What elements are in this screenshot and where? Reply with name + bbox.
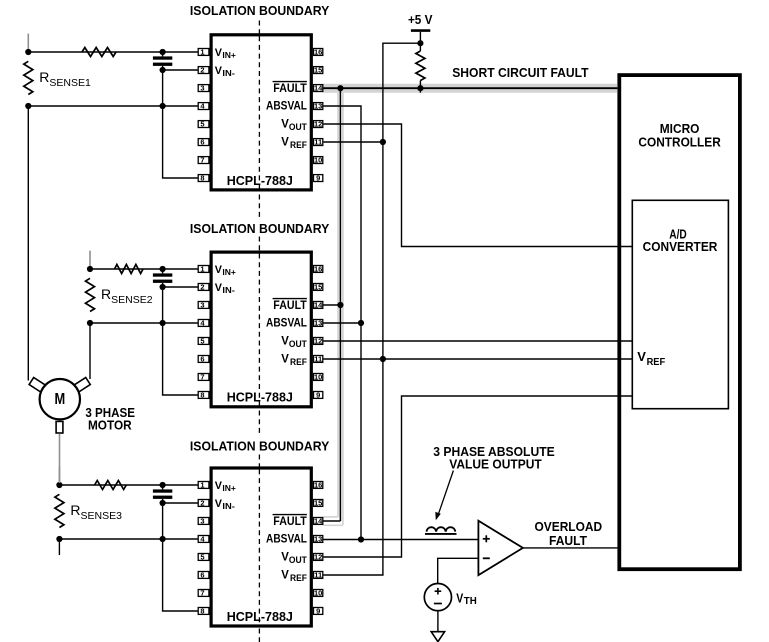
svg-text:13: 13	[314, 319, 322, 328]
wire FAULT bus horizontal to microcontroller	[323, 87, 618, 89]
wire top rail stage 3	[59, 484, 198, 486]
node pullup/fault bus	[417, 85, 423, 91]
pin 4 U1	[198, 103, 209, 110]
node rail-sense 1a	[25, 49, 31, 55]
pin 15 U2	[314, 284, 323, 291]
node VREF IC1	[380, 139, 386, 145]
pin 1 U3	[198, 482, 209, 489]
pin 15 U1	[314, 67, 323, 74]
svg-text:REF: REF	[290, 573, 307, 583]
wire FAULT bus vertical	[339, 88, 341, 521]
svg-text:11: 11	[314, 355, 322, 364]
wire cap to bottom rail 3	[162, 503, 164, 539]
svg-text:IN+: IN+	[222, 268, 236, 277]
pin 8 U2	[198, 392, 209, 399]
svg-text:MOTOR: MOTOR	[88, 419, 132, 433]
svg-text:15: 15	[314, 499, 322, 508]
svg-text:9: 9	[316, 391, 320, 400]
pin 4 U2	[198, 320, 209, 327]
svg-text:IN-: IN-	[222, 69, 235, 78]
wire phase1 to motor	[27, 105, 29, 380]
svg-text:V: V	[281, 333, 289, 347]
svg-text:HCPL-788J: HCPL-788J	[227, 390, 293, 405]
svg-text:HCPL-788J: HCPL-788J	[227, 609, 293, 624]
isolation dashes inside U1	[258, 36, 260, 188]
svg-text:CONTROLLER: CONTROLLER	[638, 134, 721, 149]
wire VREF IC1 pin11	[324, 141, 383, 143]
wire ABSVAL IC2 pin13	[324, 322, 362, 324]
svg-text:11: 11	[314, 571, 322, 580]
pin 2 U3	[198, 500, 209, 507]
microcontroller block	[619, 75, 740, 569]
node rail-sense 3a	[56, 482, 62, 488]
pin 3 U3	[198, 518, 209, 525]
pin 10 U2	[314, 374, 323, 381]
motor terminal upper-right	[74, 377, 90, 391]
pin 15 U3	[314, 500, 323, 507]
pin 11 U3	[314, 572, 323, 579]
svg-text:V: V	[281, 549, 289, 563]
pin 4 U3	[198, 536, 209, 543]
op-amp isolation amplifier U3 HCPL-788J body	[211, 468, 311, 626]
svg-text:HCPL-788J: HCPL-788J	[227, 173, 293, 188]
svg-text:12: 12	[314, 337, 322, 346]
wire top rail stage 1	[28, 51, 198, 53]
pin 14 U1	[314, 85, 323, 92]
svg-text:+5 V: +5 V	[408, 12, 433, 27]
svg-text:13: 13	[314, 535, 322, 544]
svg-text:16: 16	[314, 48, 322, 57]
node +5V branch	[417, 40, 423, 46]
svg-text:V: V	[281, 134, 289, 148]
wire VREF IC2 pin11 to A/D	[324, 358, 632, 360]
node rail-mid 3b	[160, 536, 166, 542]
svg-text:8: 8	[200, 174, 204, 183]
pin 13 U2	[314, 320, 323, 327]
voltage source VTH	[424, 584, 451, 611]
svg-text:V: V	[637, 349, 646, 364]
svg-text:10: 10	[314, 156, 322, 165]
svg-text:7: 7	[200, 373, 204, 382]
svg-text:6: 6	[200, 571, 204, 580]
svg-text:9: 9	[316, 607, 320, 616]
pin 12 U2	[314, 338, 323, 345]
pin 16 U3	[314, 482, 323, 489]
svg-text:8: 8	[200, 391, 204, 400]
pin 7 U2	[198, 374, 209, 381]
gray phase stub stage 2	[89, 251, 91, 267]
svg-text:3: 3	[200, 517, 204, 526]
svg-text:ABSVAL: ABSVAL	[266, 99, 307, 113]
pin 14 U2	[314, 302, 323, 309]
svg-text:REF: REF	[647, 357, 666, 368]
pin 5 U1	[198, 121, 209, 128]
ground	[431, 632, 444, 642]
svg-text:7: 7	[200, 589, 204, 598]
svg-text:1: 1	[200, 48, 204, 57]
svg-text:SHORT CIRCUIT FAULT: SHORT CIRCUIT FAULT	[452, 65, 588, 80]
wire bottom rail stage 2	[90, 322, 199, 324]
pin 13 U3	[314, 536, 323, 543]
pin 8 U1	[198, 175, 209, 182]
svg-text:1: 1	[200, 481, 204, 490]
node rail-cap 1a	[160, 49, 166, 55]
wire to pin8 stage 1	[163, 106, 199, 178]
pin 12 U1	[314, 121, 323, 128]
svg-text:V: V	[281, 567, 289, 581]
resistor RSENSE1	[24, 61, 33, 94]
pin 9 U1	[314, 175, 323, 182]
wire ABSVAL IC3 pin13 to comparator	[324, 539, 479, 541]
svg-text:14: 14	[314, 84, 323, 93]
svg-text:1: 1	[200, 265, 204, 274]
isolation dashes inside U2	[258, 254, 260, 406]
svg-text:OUT: OUT	[289, 555, 307, 565]
gray phase stub stage 1	[27, 34, 29, 50]
svg-text:9: 9	[316, 174, 320, 183]
isolation boundary dashed line 2	[258, 237, 260, 436]
wire comparator output OVERLOAD FAULT	[523, 547, 618, 549]
svg-text:14: 14	[314, 301, 323, 310]
pin 2 U2	[198, 284, 209, 291]
node FAULT IC2 junction	[337, 302, 343, 308]
pin 16 U1	[314, 49, 323, 56]
svg-text:3: 3	[200, 301, 204, 310]
pin 11 U2	[314, 356, 323, 363]
pin 1 U2	[198, 266, 209, 273]
wire VIN- pin2 stage 2	[163, 286, 199, 288]
wire cap to bottom rail 2	[162, 287, 164, 323]
wire comparator minus input	[438, 558, 479, 583]
svg-text:13: 13	[314, 102, 322, 111]
svg-text:6: 6	[200, 138, 204, 147]
arrow to absolute value node	[439, 471, 454, 514]
comparator U1	[478, 521, 523, 575]
node cap-pin2 1	[160, 67, 166, 73]
A/D converter block	[632, 200, 728, 408]
wire VOUT1 to A/D	[324, 124, 632, 247]
svg-text:ISOLATION BOUNDARY: ISOLATION BOUNDARY	[190, 3, 330, 18]
motor M1	[40, 379, 80, 419]
pin 11 U1	[314, 139, 323, 146]
node rail-sense 2a	[87, 266, 93, 272]
wire VOUT3 to A/D	[324, 396, 632, 557]
svg-text:IN+: IN+	[222, 51, 236, 60]
resistor input R3a	[95, 481, 127, 490]
isolation boundary dashed line 1	[258, 21, 260, 218]
pin 7 U3	[198, 590, 209, 597]
pin 14 U3	[314, 518, 323, 525]
svg-text:8: 8	[200, 607, 204, 616]
svg-text:2: 2	[200, 499, 204, 508]
wire pullup to fault bus	[419, 81, 421, 93]
pin 3 U2	[198, 302, 209, 309]
node rail-sense 2b	[87, 320, 93, 326]
svg-text:12: 12	[314, 120, 322, 129]
node rail-mid 2b	[160, 320, 166, 326]
svg-text:14: 14	[314, 517, 323, 526]
resistor R pull-up	[416, 51, 425, 81]
pin 8 U3	[198, 608, 209, 615]
capacitor C1	[153, 56, 172, 59]
wire cap to bottom rail 1	[162, 70, 164, 106]
resistor RSENSE3	[55, 494, 64, 527]
op-amp isolation amplifier U2 HCPL-788J body	[211, 252, 311, 407]
svg-text:ISOLATION BOUNDARY: ISOLATION BOUNDARY	[190, 221, 330, 236]
svg-text:IN-: IN-	[222, 286, 235, 295]
svg-text:REF: REF	[290, 357, 307, 367]
wire VTH to ground	[437, 611, 439, 632]
capacitor C2	[153, 273, 172, 276]
op-amp isolation amplifier U1 HCPL-788J body	[211, 35, 311, 190]
svg-text:12: 12	[314, 553, 322, 562]
svg-text:IN+: IN+	[222, 484, 236, 493]
isolation dashes inside U3	[258, 469, 260, 624]
svg-text:M: M	[54, 391, 65, 408]
motor terminal upper-left	[29, 377, 45, 391]
wire FAULT IC3 pin14	[323, 520, 341, 522]
svg-text:VALUE OUTPUT: VALUE OUTPUT	[449, 456, 542, 471]
svg-text:ABSVAL: ABSVAL	[266, 316, 307, 330]
svg-text:ISOLATION BOUNDARY: ISOLATION BOUNDARY	[190, 438, 330, 453]
node rail-sense 3b	[56, 536, 62, 542]
svg-text:V: V	[456, 591, 463, 606]
pin 2 U1	[198, 67, 209, 74]
svg-text:V: V	[281, 116, 289, 130]
short-circuit-fault gray highlight	[323, 84, 618, 93]
node cap-pin2 2	[160, 284, 166, 290]
isolation boundary dashed line 3	[258, 455, 260, 642]
svg-text:5: 5	[200, 553, 204, 562]
capacitor C3	[153, 489, 172, 492]
node rail-mid 1b	[160, 103, 166, 109]
node cap-pin2 3	[160, 500, 166, 506]
svg-text:FAULT: FAULT	[273, 81, 307, 95]
pin 5 U3	[198, 554, 209, 561]
pin 9 U3	[314, 608, 323, 615]
resistor RSENSE2	[86, 278, 95, 311]
svg-text:2: 2	[200, 283, 204, 292]
svg-text:2: 2	[200, 66, 204, 75]
pin 12 U3	[314, 554, 323, 561]
svg-text:5: 5	[200, 337, 204, 346]
svg-text:5: 5	[200, 120, 204, 129]
svg-text:FAULT: FAULT	[549, 533, 587, 548]
wire VIN- pin2 stage 1	[163, 69, 199, 71]
pin 9 U2	[314, 392, 323, 399]
gray phase stub stage 3	[58, 467, 60, 483]
svg-text:FAULT: FAULT	[273, 298, 307, 312]
pin 13 U1	[314, 103, 323, 110]
svg-text:FAULT: FAULT	[273, 514, 307, 528]
wire bottom rail stage 3	[59, 538, 198, 540]
pin 6 U1	[198, 139, 209, 146]
absolute value summing coil	[427, 527, 436, 531]
resistor input R2a	[115, 265, 144, 274]
wire top rail stage 2	[90, 268, 199, 270]
node FAULT bus / pullup	[337, 85, 343, 91]
wire VOUT2 to A/D	[324, 340, 632, 342]
wire phase3 stub below	[58, 539, 60, 555]
node ABSVAL IC3	[358, 536, 364, 542]
node VREF IC2	[380, 356, 386, 362]
+5V supply symbol	[411, 29, 430, 32]
resistor input R1a	[82, 48, 116, 57]
svg-text:OUT: OUT	[289, 339, 307, 349]
wire to pin8 stage 2	[163, 323, 199, 395]
svg-text:10: 10	[314, 589, 322, 598]
wire ABSVAL bus	[324, 106, 362, 540]
svg-text:11: 11	[314, 138, 322, 147]
pin 5 U2	[198, 338, 209, 345]
svg-text:6: 6	[200, 355, 204, 364]
node rail-cap 2a	[160, 266, 166, 272]
pin 3 U1	[198, 85, 209, 92]
svg-text:15: 15	[314, 283, 322, 292]
motor terminal bottom	[56, 421, 63, 433]
wire VIN- pin2 stage 3	[163, 502, 199, 504]
svg-text:REF: REF	[290, 140, 307, 150]
svg-text:15: 15	[314, 66, 322, 75]
svg-text:3: 3	[200, 84, 204, 93]
node rail-sense 1b	[25, 103, 31, 109]
svg-text:ABSVAL: ABSVAL	[266, 532, 307, 546]
pin 10 U3	[314, 590, 323, 597]
pin 7 U1	[198, 157, 209, 164]
wire +5V to VREF bus	[324, 43, 421, 575]
wire phase2 to motor	[89, 323, 91, 379]
svg-text:16: 16	[314, 481, 322, 490]
wire to pin8 stage 3	[163, 539, 199, 611]
pin 1 U1	[198, 49, 209, 56]
wire bottom rail stage 1	[28, 105, 198, 107]
pin 6 U2	[198, 356, 209, 363]
pin 6 U3	[198, 572, 209, 579]
node ABSVAL IC2	[358, 320, 364, 326]
wire FAULT IC2 pin14	[323, 304, 341, 306]
svg-text:V: V	[281, 351, 289, 365]
svg-text:IN-: IN-	[222, 502, 235, 511]
pin 16 U2	[314, 266, 323, 273]
node rail-cap 3a	[160, 482, 166, 488]
svg-text:TH: TH	[464, 596, 477, 607]
wire motor bottom phase3 gray	[59, 434, 61, 483]
svg-text:7: 7	[200, 156, 204, 165]
pin 10 U1	[314, 157, 323, 164]
svg-text:CONVERTER: CONVERTER	[643, 239, 718, 254]
svg-text:10: 10	[314, 373, 322, 382]
svg-text:OUT: OUT	[289, 122, 307, 132]
svg-text:16: 16	[314, 265, 322, 274]
